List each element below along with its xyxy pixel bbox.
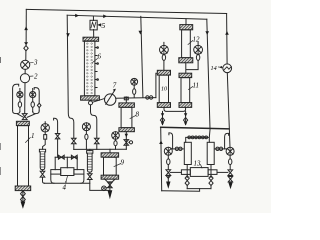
- valve below left tube: [40, 170, 45, 183]
- vessel 8 body: [121, 107, 132, 127]
- oo connector + hook left: [172, 148, 183, 150]
- handwheel circle: [129, 141, 130, 143]
- box enclosure bottom edge: [162, 189, 200, 192]
- arrow on vessel8 drain: [125, 134, 128, 138]
- arrow big below vessel 9: [108, 190, 113, 199]
- drain collector in box: [187, 188, 211, 190]
- svg-text:3: 3: [33, 59, 38, 67]
- svg-text:5: 5: [102, 21, 106, 30]
- valve on hook 96.8: [95, 138, 100, 149]
- bubbler oval under middle gauge: [85, 134, 88, 139]
- link left gauge to vessel pipe: [170, 171, 181, 173]
- svg-text:4: 4: [63, 184, 67, 192]
- drain column 11: [185, 111, 187, 124]
- wire left feed vertical: [25, 9, 27, 45]
- column 6 top flange: [83, 37, 99, 41]
- test tube left: [39, 149, 45, 152]
- scan edge artifacts: [0, 57, 1, 63]
- svg-text:13: 13: [194, 160, 202, 168]
- label 9: [114, 164, 121, 167]
- U connector between 10 and 11: [164, 107, 186, 111]
- valve below middle tube: [88, 172, 110, 190]
- hook line L4: [34, 88, 39, 111]
- wire box5 to column 6: [93, 30, 95, 37]
- arrow on x141 drop: [139, 31, 143, 35]
- svg-text:9: 9: [121, 159, 125, 167]
- valve on manifold A: [58, 155, 64, 159]
- wire bottom drain left: [45, 182, 90, 184]
- wire right drop from second line (x141): [141, 16, 143, 97]
- label 6: [93, 59, 98, 63]
- bubbler oval L2: [18, 102, 21, 108]
- label 12: [188, 41, 193, 45]
- column 10 bottom flange: [157, 103, 170, 108]
- label 2: [30, 75, 33, 77]
- arrow on box left edge: [159, 140, 163, 144]
- box enclosure top edge: [161, 127, 229, 129]
- valve arrow above circle 3: [24, 42, 28, 45]
- wire vessel4 ends down: [51, 174, 84, 183]
- wire top line right drop: [226, 14, 229, 64]
- vessel 13 right pipe: [208, 170, 217, 175]
- gauge right of vessel9: [112, 132, 120, 140]
- column 1 top flange: [16, 121, 29, 125]
- stems under small columns: [186, 165, 188, 189]
- wire U-joins into column head: [13, 111, 20, 114]
- label 5: [98, 24, 101, 26]
- column 1 body: [18, 126, 29, 186]
- manifold line of vessel 4: [55, 156, 77, 158]
- vessel 9 top flange: [101, 153, 119, 157]
- rotameter gauge left (line L2): [17, 92, 23, 98]
- wire top boundary line: [26, 9, 226, 13]
- valve on manifold B: [71, 155, 77, 159]
- hook from column6 outlet down: [91, 105, 97, 138]
- vessel 9 body: [104, 157, 117, 175]
- wire second line left drop with hook: [67, 15, 74, 138]
- wire pump to box corner: [227, 73, 230, 148]
- svg-text:14: 14: [211, 65, 217, 72]
- label 13: [201, 165, 203, 169]
- pump circle 2: [20, 74, 29, 83]
- svg-text:6: 6: [98, 53, 102, 61]
- svg-text:11: 11: [193, 82, 199, 90]
- column 6 bottom flange: [81, 96, 100, 100]
- column 11 bottom flange: [179, 103, 192, 108]
- arrow on left drop: [66, 33, 70, 37]
- wire second boundary line: [67, 15, 207, 19]
- gauge above column 10: [160, 45, 169, 54]
- wire: [25, 51, 27, 60]
- beads manifold: [186, 129, 210, 143]
- node manifold above column 1 : hook line L1: [13, 84, 19, 110]
- oo connector + hook right: [215, 148, 227, 150]
- label 3: [30, 62, 33, 64]
- wire riser to column 10: [156, 73, 157, 97]
- valve on vessel8 drain: [124, 140, 129, 146]
- valve bowtie at column 1 head: [22, 114, 27, 120]
- pump 14: [223, 64, 232, 73]
- column 12 body: [182, 30, 191, 58]
- vessel 4 right pipe: [74, 170, 84, 175]
- valve below vessel 9: [108, 182, 113, 188]
- vessel 8 top stem: [125, 97, 127, 103]
- column 1 drain valves: [22, 191, 24, 202]
- gauge mid-right over header: [131, 78, 138, 85]
- test tube middle: [87, 151, 93, 154]
- bubbler oval: [162, 55, 165, 61]
- wire header of vessel 9 group: [74, 148, 127, 150]
- vessel 9 drain: [109, 182, 111, 190]
- vessel 9 cone: [105, 179, 115, 182]
- valve diamond above circle 3: [24, 46, 28, 51]
- svg-text:1: 1: [31, 132, 35, 140]
- vessel 8 bottom flange: [119, 128, 134, 132]
- wire manifold drops: [55, 157, 77, 169]
- column 11 top flange: [179, 73, 192, 77]
- box 5 (valve): [90, 20, 97, 30]
- sampler circle left: [106, 187, 110, 189]
- vessel 8 top flange: [119, 103, 134, 107]
- column 1 bottom flange: [15, 186, 31, 191]
- column 12 top stem: [185, 19, 187, 25]
- valve on hook 73.8: [72, 138, 77, 149]
- column 6 side nubs: [95, 48, 97, 88]
- box enclosure left edge: [161, 127, 162, 190]
- column 6 body with packing: [84, 41, 95, 96]
- arrow on it: [205, 31, 209, 35]
- nub at vessel 8 stem tee: [124, 97, 128, 100]
- small column right in box: [207, 142, 214, 164]
- svg-text:8: 8: [136, 111, 140, 119]
- svg-text:10: 10: [161, 87, 167, 93]
- gauge stack left in box: [164, 147, 172, 155]
- gauge over header (middle): [82, 123, 90, 131]
- wire center drop to column 1: [24, 83, 26, 114]
- vessel 13 left pipe: [181, 170, 190, 175]
- label 4: [66, 176, 68, 182]
- rotameter gauge right (line L3): [30, 92, 36, 98]
- drain column 10: [162, 111, 164, 124]
- connector circles on header: [146, 96, 149, 99]
- link right gauge to vessel pipe: [217, 171, 228, 173]
- vessel 9 top stub: [109, 149, 111, 153]
- gauge right of column 12: [194, 45, 203, 54]
- gauge stack right in box: [226, 147, 234, 155]
- label 14: [218, 66, 222, 69]
- box 5 feed tee: [92, 16, 94, 21]
- gauge near column 1 top (sampler): [41, 124, 49, 132]
- arrows on second line: [75, 14, 107, 18]
- hook with valve near tube (x57.6): [54, 118, 58, 157]
- wire: [24, 69, 26, 73]
- vessel 4 left pipe: [51, 170, 61, 175]
- column 12 bottom flange: [179, 58, 193, 63]
- bubbler oval: [196, 55, 199, 61]
- arrow on left feed: [24, 26, 28, 30]
- vessel 9 bottom flange: [101, 175, 119, 179]
- vessel 4 center body: [61, 168, 74, 176]
- pump circle 3: [21, 60, 30, 69]
- svg-text:12: 12: [193, 36, 201, 44]
- column 12 top flange: [180, 25, 193, 30]
- vessel 8 drain stem: [125, 132, 127, 150]
- valve on hook 57.6: [55, 134, 59, 139]
- gauge 7 circle with slash: [105, 94, 116, 105]
- column 10 top flange: [157, 70, 170, 75]
- bubbler oval L3: [31, 102, 34, 108]
- stem 12 to 11: [185, 63, 187, 73]
- arrow on it: [225, 31, 229, 35]
- arrow drain column 1: [21, 202, 26, 209]
- label 1: [26, 138, 31, 143]
- svg-text:2: 2: [34, 73, 38, 81]
- column 6 outlet circle: [89, 101, 93, 105]
- bubbler oval: [114, 141, 117, 146]
- bubbler oval: [133, 89, 136, 95]
- label 11: [189, 87, 193, 90]
- small column left in box: [184, 142, 191, 164]
- vessel 13 center: [190, 168, 208, 177]
- wire gauge7 to mid header: [116, 97, 156, 100]
- wire outlet to gauge 7: [92, 99, 104, 103]
- column 11 body: [181, 78, 190, 103]
- label 8: [130, 116, 136, 119]
- wire second line right drop: [207, 19, 210, 128]
- column 10 body: [159, 75, 168, 103]
- svg-text:7: 7: [113, 82, 117, 90]
